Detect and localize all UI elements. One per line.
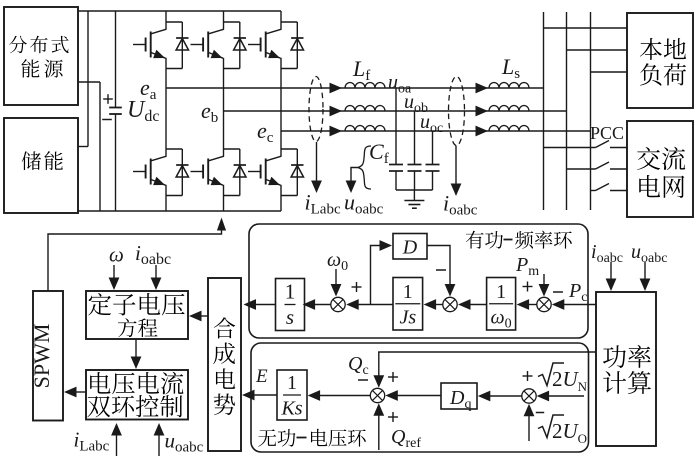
- arrow 1/Ks output to synth EMF: [242, 390, 277, 401]
- svg-text:s: s: [286, 305, 294, 329]
- box: SPWM: [29, 291, 63, 421]
- IGBT Q4: [133, 149, 182, 196]
- arrow S4 to 1/Ks: [308, 390, 371, 401]
- arrow 1/s output to synth EMF: [244, 299, 276, 310]
- wire: phase c line ec: [281, 130, 591, 132]
- block D: [393, 234, 427, 260]
- box: AC grid 交流电网: [627, 121, 693, 217]
- IGBT Q3: [248, 22, 297, 69]
- wire: bus bar c: [590, 12, 592, 210]
- arrow: synth EMF to stator box: [189, 311, 208, 322]
- diode D1: [176, 22, 188, 69]
- inductor Ls phase b: [489, 106, 529, 112]
- sign - at S2: [436, 269, 446, 271]
- arrow: stator box to dual loop box: [131, 339, 142, 369]
- box: local load 本地负荷: [627, 13, 693, 108]
- capacitor Cf phase c: [426, 131, 440, 190]
- svg-text:ω: ω: [109, 243, 124, 267]
- wire Pc from power calc into S3: [552, 299, 596, 310]
- diode D4: [176, 149, 188, 196]
- arrow S1 to 1/s: [303, 299, 331, 310]
- svg-text:E: E: [255, 366, 268, 387]
- arrow 1/Js to S1: [346, 299, 393, 310]
- wire: storage link to top rail: [78, 11, 88, 147]
- diode D5: [234, 149, 246, 196]
- block Dq: [441, 383, 477, 412]
- arrow Pm into S3: [539, 274, 550, 297]
- svg-text:1: 1: [496, 281, 506, 303]
- wire: local load feeders: [544, 28, 628, 72]
- inductor Lf phase c: [345, 126, 385, 132]
- diode D2: [234, 22, 246, 69]
- label sqrt2 UN: [538, 363, 588, 394]
- wire: bus bar b: [566, 12, 568, 210]
- summing junction S4: [370, 388, 384, 402]
- arrowheads on phase lines after ellipse 2: [476, 83, 489, 137]
- polarity -: [102, 119, 112, 121]
- arrow UO into S5: [524, 404, 535, 441]
- wire: bus bar a: [543, 12, 545, 210]
- svg-text:1: 1: [287, 372, 297, 394]
- wire: leg a verticals: [165, 11, 167, 211]
- arrow Dq to S4: [385, 390, 441, 401]
- wire: source link to bottom rail: [78, 82, 100, 211]
- summing junction S3: [537, 297, 551, 311]
- arrow Qref into S4: [373, 403, 384, 450]
- sign + at S1: [352, 286, 362, 288]
- sign + at S4 bottom: [388, 416, 398, 418]
- wire: capacitor common bar: [396, 189, 433, 191]
- label sqrt2 UO: [538, 415, 587, 446]
- wire: D output to S2: [427, 246, 455, 297]
- panel: active power-frequency loop: [249, 224, 588, 338]
- polarity +: [103, 98, 113, 100]
- box: voltage/current dual loop control 电压电流双环控制: [86, 370, 188, 420]
- inductor Lf phase a: [345, 83, 385, 89]
- wire: DC bus top rail: [78, 10, 281, 12]
- ground: [404, 190, 424, 208]
- arrowheads on phase lines after ellipse 1: [330, 83, 343, 137]
- wire Qc from power calc into S4: [373, 352, 596, 388]
- panel title 有功-频率环: [466, 231, 572, 249]
- sign + at S3: [523, 286, 533, 288]
- sign - at S3: [553, 291, 563, 293]
- capacitor Cdc (DC link): [109, 11, 122, 211]
- arrow iLabc into dual loop: [111, 423, 122, 456]
- svg-text:D: D: [402, 237, 418, 259]
- svg-text:Ks: Ks: [280, 398, 302, 420]
- arrow uoabc into dual loop: [154, 423, 165, 456]
- summing junction S5: [522, 389, 536, 403]
- arrow ioabc into stator box: [151, 265, 162, 290]
- measurement ellipse 2 (output currents): [449, 77, 465, 146]
- svg-text:PCC: PCC: [590, 123, 624, 143]
- sign + at S4 top right: [388, 376, 398, 378]
- IGBT Q5: [191, 149, 240, 196]
- inductor Ls phase c: [489, 126, 529, 132]
- arrow S2 to 1/Js: [424, 299, 443, 310]
- wire: DC bus bottom rail: [78, 210, 281, 212]
- switch phase a: [544, 141, 628, 148]
- box: power calculation 功率计算: [596, 292, 656, 446]
- wire: phase a line ea: [166, 87, 544, 89]
- arrow UN into S5: [537, 391, 584, 402]
- block 1/Ks: [277, 370, 307, 420]
- arrow: dual loop to SPWM: [64, 387, 86, 398]
- wire: phase b line eb: [224, 110, 567, 112]
- arrow S3 to 1/omega0: [517, 299, 537, 310]
- arrow omega into stator box: [109, 265, 120, 290]
- switch phase c: [591, 184, 628, 191]
- arrow ioabc into power calc: [606, 262, 617, 291]
- block 1/s: [276, 279, 305, 331]
- capacitor Cf phase b: [408, 111, 422, 190]
- summing junction S2: [443, 297, 457, 311]
- wire: leg c verticals: [280, 11, 282, 211]
- capacitor Cf phase a: [389, 88, 403, 190]
- sign + at S5: [523, 375, 533, 377]
- measurement ellipse 1 (inverter currents): [309, 77, 323, 142]
- block 1/omega0: [487, 278, 516, 331]
- box: stator voltage equation 定子电压方程: [86, 291, 188, 339]
- box: synthesize EMF 合成电势: [208, 278, 241, 451]
- measurement arrow ioabc: [451, 146, 462, 197]
- arrow 1/omega0 to S2: [458, 299, 487, 310]
- panel: reactive power-voltage loop: [251, 343, 589, 452]
- diode D3: [291, 22, 303, 69]
- wire: leg b verticals: [223, 11, 225, 211]
- arrow omega0 into S1: [331, 269, 342, 297]
- wire: tap to D block: [371, 240, 393, 304]
- svg-text:SPWM: SPWM: [29, 324, 54, 389]
- IGBT Q6: [248, 149, 297, 196]
- sign - at S5 bottom: [536, 412, 544, 414]
- inductor Lf phase b: [345, 106, 385, 112]
- wire: SPWM output up to inverter: [48, 218, 226, 292]
- summing junction S1: [331, 297, 345, 311]
- arrow S5 to Dq: [478, 391, 522, 402]
- box: distributed energy source 分布式能源: [4, 7, 78, 105]
- box: energy storage 储能: [4, 118, 78, 213]
- svg-text:Js: Js: [399, 306, 416, 328]
- panel title 无功-电压环: [258, 429, 366, 447]
- value label Cf with brace: [358, 139, 389, 189]
- IGBT Q2: [191, 22, 240, 69]
- switch phase b: [567, 162, 628, 169]
- IGBT Q1: [133, 22, 182, 69]
- block 1/Js: [393, 278, 423, 331]
- svg-text:1: 1: [403, 281, 413, 303]
- sign - at S4 top: [358, 379, 368, 381]
- diode D6: [291, 149, 303, 196]
- inductor Ls phase a: [489, 83, 529, 89]
- measurement tap uoabc (bent arrow): [346, 168, 358, 194]
- measurement arrow iLabc: [311, 142, 322, 193]
- svg-text:1: 1: [285, 280, 296, 304]
- arrow uoabc into power calc: [640, 262, 651, 291]
